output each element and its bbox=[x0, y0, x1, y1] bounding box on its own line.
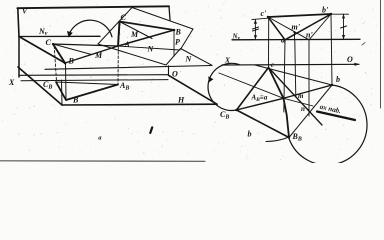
point dots bbox=[52, 13, 333, 139]
dot b' bbox=[330, 13, 332, 15]
dot C rotated bbox=[52, 43, 54, 45]
fan c through a to Bb bbox=[269, 68, 290, 138]
tiny scan speck bbox=[362, 43, 365, 46]
front box vertical bbox=[61, 80, 64, 105]
plane V top edge bbox=[17, 6, 169, 8]
dot B right bbox=[173, 29, 176, 32]
plane P right edge bbox=[181, 29, 193, 49]
svg-text:M: M bbox=[94, 51, 103, 60]
svg-text:BB: BB bbox=[292, 132, 302, 143]
svg-text:b': b' bbox=[322, 6, 329, 15]
triangle edge A-B bbox=[118, 30, 174, 46]
svg-text:C: C bbox=[121, 13, 127, 22]
svg-text:b: b bbox=[248, 130, 252, 139]
median rotated C to M bbox=[53, 44, 92, 55]
fan c through m n extended bbox=[269, 68, 323, 126]
H plane right edge bbox=[169, 75, 218, 104]
page scan edge right bbox=[380, 0, 382, 108]
svg-text:m: m bbox=[298, 92, 304, 100]
svg-text:b: b bbox=[336, 75, 340, 84]
X axis epure bbox=[222, 63, 359, 66]
rotation arc bbox=[69, 20, 112, 37]
projection vertical a' down bbox=[284, 40, 285, 112]
dot a bbox=[282, 97, 284, 99]
svg-text:O: O bbox=[172, 70, 178, 79]
svg-text:CB: CB bbox=[43, 80, 52, 91]
dot m' bbox=[293, 31, 295, 33]
projection vertical m' down bbox=[295, 40, 296, 97]
bottom triangle edge Cb-Ab bbox=[56, 82, 118, 85]
horizontal axis line middle bbox=[19, 74, 169, 77]
dot n junction bbox=[307, 109, 309, 111]
plane V left edge bbox=[18, 8, 19, 36]
svg-text:a: a bbox=[281, 36, 285, 45]
projection vertical b' down bbox=[331, 15, 332, 85]
triangle edge C-A bbox=[118, 22, 120, 47]
svg-text:A: A bbox=[124, 40, 131, 49]
rotated triangle edge C-B bbox=[53, 44, 65, 63]
rotation arc arrowhead bbox=[67, 31, 73, 38]
svg-text:C: C bbox=[46, 38, 52, 47]
dashed projection line C down bbox=[119, 23, 121, 45]
trace roof right bbox=[166, 49, 181, 66]
page scan edge bottom bbox=[0, 160, 205, 163]
dot Cb epure bbox=[235, 109, 237, 111]
dashed projection line A down bbox=[117, 47, 119, 84]
horizontal front top edge bbox=[21, 80, 168, 81]
trace Nv line bbox=[19, 35, 100, 37]
left arc arrowhead bbox=[208, 76, 213, 82]
edge Cb to a bbox=[237, 98, 284, 110]
corner vertical O bbox=[168, 66, 170, 76]
chord line through a bbox=[219, 73, 313, 106]
m' drop bbox=[294, 32, 296, 40]
small arc fragment left of Bb bbox=[266, 137, 289, 142]
fan c to Cb bbox=[237, 68, 269, 111]
projection line rotated B down bbox=[65, 64, 68, 101]
rotated triangle edge B-A bbox=[65, 46, 118, 63]
dot b bbox=[331, 84, 333, 86]
svg-text:O: O bbox=[347, 55, 353, 64]
corner line to rotated B bbox=[19, 37, 65, 64]
svg-text:n': n' bbox=[306, 31, 313, 40]
median C to M bbox=[120, 22, 153, 39]
svg-text:M: M bbox=[130, 30, 139, 39]
line c'-n' bbox=[268, 17, 309, 40]
dot Bb bbox=[288, 136, 290, 138]
dashed projection line rotated C down bbox=[54, 46, 56, 81]
H plane front bottom edge bbox=[62, 103, 217, 106]
svg-text:c': c' bbox=[261, 9, 268, 18]
edge Cb to Bb bbox=[237, 110, 290, 138]
bottom triangle edge Bh-Ab bbox=[66, 85, 118, 101]
svg-text:P: P bbox=[175, 38, 180, 47]
svg-text:H: H bbox=[177, 96, 185, 105]
svg-text:N: N bbox=[147, 45, 155, 54]
svg-text:Nv: Nv bbox=[38, 27, 48, 37]
horizontal line back edge H bbox=[45, 66, 212, 70]
line A to N bbox=[118, 46, 180, 50]
svg-text:B: B bbox=[68, 57, 75, 66]
right rotation arc bbox=[289, 85, 367, 165]
plane V right edge bbox=[169, 6, 170, 20]
line b'-n' bbox=[309, 14, 331, 40]
svg-text:X: X bbox=[224, 56, 231, 65]
plane P top right edge bbox=[132, 8, 193, 30]
left dimension bracket bbox=[254, 20, 256, 40]
edge c'-b' bbox=[268, 14, 331, 17]
caption f mark bbox=[150, 127, 152, 132]
edge b'-a' bbox=[285, 14, 331, 40]
line b through n to Bb bbox=[289, 85, 332, 138]
left vertical edge bbox=[18, 37, 20, 78]
fan c to b bbox=[255, 65, 332, 85]
plane P bottom edge bbox=[98, 44, 166, 65]
front left diagonal edge bbox=[18, 67, 62, 105]
dot c' bbox=[267, 16, 269, 18]
svg-text:CB: CB bbox=[220, 110, 229, 121]
svg-text:Nv: Nv bbox=[232, 33, 241, 42]
svg-text:a: a bbox=[98, 134, 102, 141]
svg-text:c: c bbox=[271, 61, 274, 69]
left rotation arc bbox=[208, 63, 239, 110]
edge a to b through m bbox=[284, 85, 333, 98]
bottom triangle edge Cb-Bh bbox=[56, 82, 66, 100]
projection vertical c'-c bbox=[268, 19, 270, 69]
projection vertical n' down bbox=[308, 40, 310, 116]
dot B rotated bbox=[64, 62, 67, 65]
svg-text:m': m' bbox=[292, 23, 301, 32]
svg-text:X: X bbox=[8, 78, 15, 87]
svg-text:n: n bbox=[301, 105, 305, 113]
rotated triangle edge C-A bbox=[53, 44, 118, 46]
svg-text:AB: AB bbox=[119, 81, 129, 92]
svg-text:AB≡a: AB≡a bbox=[251, 94, 268, 104]
scan speckle texture bbox=[2, 2, 377, 161]
edge c'-a' bbox=[268, 17, 285, 40]
trace line Nv epure bbox=[232, 38, 360, 41]
nat size underline bbox=[317, 112, 355, 121]
triangle CBA edge C-B bbox=[120, 22, 175, 31]
svg-text:N: N bbox=[185, 55, 193, 64]
plane P left edge bbox=[98, 8, 132, 45]
projection drop from B bbox=[173, 31, 175, 56]
right dimension bracket bbox=[343, 14, 345, 39]
svg-text:B: B bbox=[175, 28, 182, 37]
